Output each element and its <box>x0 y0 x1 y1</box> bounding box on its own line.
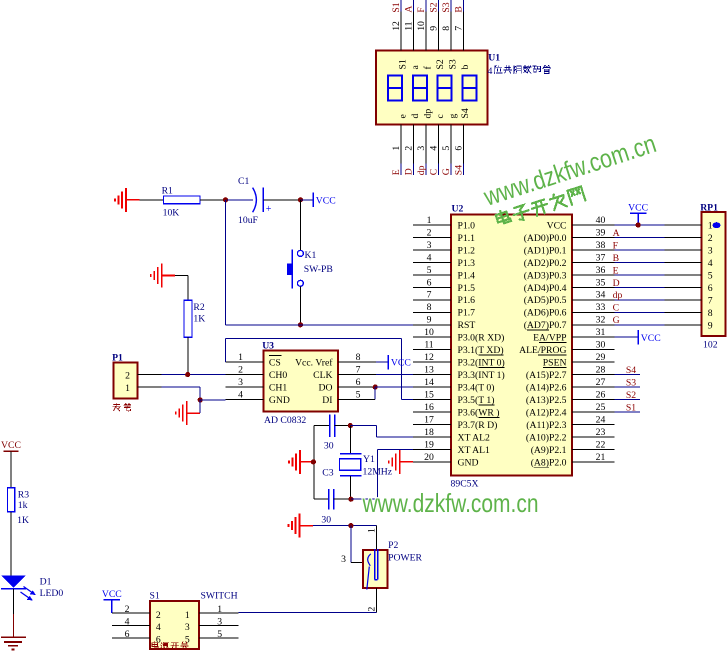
U2 pin number 30 <box>596 340 606 351</box>
net label B <box>454 6 465 12</box>
U2 pin number 27 <box>596 377 606 388</box>
U2 pin 26 wire <box>572 399 615 401</box>
svg-text:26: 26 <box>596 390 606 401</box>
U2 pin 12 wire <box>413 361 451 363</box>
net label dp <box>613 290 623 301</box>
U1 pin 8 wire <box>450 0 452 50</box>
svg-text:6: 6 <box>708 283 713 294</box>
U2 pin 17 wire <box>413 424 451 426</box>
svg-text:P3.4(T 0): P3.4(T 0) <box>458 383 495 394</box>
RP1 pin 7 wire <box>665 299 702 301</box>
svg-text:4: 4 <box>427 252 432 263</box>
U3 pin 2 wire <box>225 374 263 376</box>
svg-text:2: 2 <box>125 370 130 381</box>
svg-text:38: 38 <box>596 240 606 251</box>
earth ground <box>1 637 26 649</box>
net label D <box>404 168 415 175</box>
label probe (CJK) <box>113 403 131 411</box>
wire <box>10 451 12 487</box>
MCU U2 body <box>451 215 572 476</box>
U1 pin 9 wire <box>437 0 439 50</box>
S1 pin 1 wire <box>199 612 238 614</box>
U3 pin 6 wire DO <box>338 386 375 388</box>
svg-text:30: 30 <box>324 440 334 451</box>
svg-text:22: 22 <box>596 439 606 450</box>
power VCC <box>313 193 336 207</box>
junction <box>298 197 303 202</box>
U2 pin 36 wire <box>572 274 615 276</box>
svg-text:2: 2 <box>156 610 161 621</box>
svg-text:VCC: VCC <box>641 333 661 344</box>
net label S1 <box>626 403 636 414</box>
net label dp <box>416 165 427 175</box>
RP1 pin 1 marker <box>713 222 721 228</box>
U2 pin 32 wire <box>572 324 615 326</box>
wire <box>615 274 665 276</box>
wire <box>239 611 377 613</box>
RP1 pin 2 wire <box>665 237 702 239</box>
U2 pin 4 wire <box>413 261 451 263</box>
svg-text:3: 3 <box>416 146 427 151</box>
svg-text:AD C0832: AD C0832 <box>264 415 306 426</box>
U2 pin number 5 <box>427 265 432 276</box>
U1 pin number 10 <box>416 21 427 31</box>
RP1 pin 9 wire <box>665 324 702 326</box>
net label F <box>613 240 619 251</box>
svg-text:CS: CS <box>269 358 281 369</box>
svg-text:17: 17 <box>424 414 434 425</box>
label 12MHz <box>363 466 393 477</box>
junction <box>373 385 378 390</box>
label R2 <box>193 302 204 313</box>
U2 pin number 40 <box>596 215 606 226</box>
power VCC <box>102 589 122 613</box>
svg-text:11: 11 <box>404 21 415 30</box>
net label B <box>613 253 619 264</box>
capacitor C1 <box>227 188 300 215</box>
designator U3 <box>262 341 274 352</box>
power VCC <box>638 330 661 344</box>
junction <box>198 397 203 402</box>
svg-text:P1.4: P1.4 <box>458 270 476 281</box>
crystal Y1 <box>340 426 362 500</box>
svg-text:30: 30 <box>596 340 606 351</box>
U2 pin 38 wire <box>572 249 615 251</box>
capacitor C3 <box>314 489 351 510</box>
svg-text:RST: RST <box>458 320 476 331</box>
S1 pin 4 wire <box>112 625 150 627</box>
U2 pin number 15 <box>424 390 434 401</box>
svg-text:G: G <box>613 315 620 326</box>
connector P1 body <box>114 363 138 399</box>
S1 inner pin numbers <box>156 610 190 646</box>
svg-text:S2: S2 <box>626 390 636 401</box>
svg-text:34: 34 <box>596 290 606 301</box>
svg-text:4: 4 <box>429 146 440 151</box>
svg-text:VCC: VCC <box>628 203 648 214</box>
svg-text:a: a <box>410 65 421 70</box>
designator P1 <box>112 352 123 363</box>
svg-text:6: 6 <box>125 629 130 640</box>
RP1 pin 1 wire <box>665 224 702 226</box>
svg-text:g: g <box>448 114 459 119</box>
wire <box>199 400 201 413</box>
svg-text:9: 9 <box>429 26 440 31</box>
svg-text:R1: R1 <box>162 185 173 196</box>
U2 pin number 23 <box>596 427 606 438</box>
net label S3 <box>441 2 452 12</box>
net label C <box>429 169 440 175</box>
watermark www.dzkfw.com.cn (bottom) <box>362 488 539 518</box>
U2 pin number 13 <box>424 365 434 376</box>
svg-text:16: 16 <box>424 402 434 413</box>
svg-text:R2: R2 <box>193 302 204 313</box>
label AD C0832 <box>264 415 306 426</box>
svg-text:P3.3(INT 1): P3.3(INT 1) <box>458 370 505 381</box>
svg-text:10: 10 <box>424 327 434 338</box>
wire <box>615 299 665 301</box>
display digit segments <box>388 76 476 101</box>
svg-text:P2: P2 <box>388 540 398 551</box>
ground <box>151 264 176 288</box>
U3 pin 3 wire <box>225 386 263 388</box>
U1 pin number 11 <box>404 21 415 30</box>
label POWER <box>388 553 422 564</box>
wire <box>12 589 14 638</box>
U2 pin number 31 <box>596 327 606 338</box>
display pin names <box>398 59 471 118</box>
svg-text:(A13)P2.5: (A13)P2.5 <box>526 395 567 406</box>
svg-text:A: A <box>404 6 415 13</box>
designator U1 <box>488 52 500 63</box>
svg-text:1K: 1K <box>17 515 29 526</box>
wire <box>615 399 641 401</box>
svg-text:U2: U2 <box>452 204 464 215</box>
svg-text:Vcc. Vref: Vcc. Vref <box>295 358 333 369</box>
svg-text:5: 5 <box>708 270 713 281</box>
svg-text:1k: 1k <box>18 500 28 511</box>
P2 pin 1 wire <box>375 526 377 551</box>
svg-text:1: 1 <box>366 528 377 533</box>
U3 pin names <box>269 355 333 406</box>
svg-text:P1.3: P1.3 <box>458 258 476 269</box>
U2 pin number 29 <box>596 352 606 363</box>
svg-text:3: 3 <box>708 245 713 256</box>
U2 pin number 34 <box>596 290 606 301</box>
svg-text:3: 3 <box>341 554 346 565</box>
U2 pin 11 wire <box>413 349 451 351</box>
net label A <box>613 228 620 239</box>
U1 pin 3 wire <box>425 125 427 175</box>
svg-text:P3.2(INT 0): P3.2(INT 0) <box>458 358 505 369</box>
svg-text:P1.1: P1.1 <box>458 233 476 244</box>
svg-text:(A11)P2.3: (A11)P2.3 <box>526 420 566 431</box>
svg-text:37: 37 <box>596 252 606 263</box>
U1 pin 2 wire <box>413 125 415 175</box>
svg-text:C: C <box>429 169 440 175</box>
P2 jack symbol <box>367 549 378 590</box>
svg-text:R3: R3 <box>18 490 29 501</box>
U3 pin 8 wire <box>338 361 388 363</box>
svg-text:C: C <box>613 303 619 314</box>
U2 pin number 9 <box>427 315 432 326</box>
U2 pin number 2 <box>427 227 432 238</box>
U1 pin 10 wire <box>425 0 427 50</box>
net label E <box>613 265 619 276</box>
svg-text:C1: C1 <box>238 176 249 187</box>
wire <box>299 200 301 251</box>
svg-text:SW-PB: SW-PB <box>304 264 333 275</box>
U2 pin 19 wire <box>413 449 451 451</box>
U2 pin number 14 <box>424 377 434 388</box>
svg-text:8: 8 <box>441 26 452 31</box>
U2 pin number 33 <box>596 302 606 313</box>
S1 pin number 4 <box>125 616 130 627</box>
U2 pin 39 wire <box>572 237 615 239</box>
designator P2 <box>388 540 398 551</box>
node CS route <box>225 338 413 399</box>
svg-text:4: 4 <box>156 622 161 633</box>
S1 pin number 2 <box>125 604 130 615</box>
designator S1 <box>150 590 160 601</box>
svg-text:6: 6 <box>427 277 432 288</box>
switch K1 <box>287 250 304 289</box>
svg-text:dp: dp <box>416 165 427 175</box>
wire <box>300 199 313 201</box>
svg-text:dp: dp <box>613 290 623 301</box>
U2 pin 5 wire <box>413 274 451 276</box>
svg-text:POWER: POWER <box>388 553 422 564</box>
U2 pin 3 wire <box>413 249 451 251</box>
svg-text:XT AL1: XT AL1 <box>458 445 491 456</box>
svg-text:PSEN: PSEN <box>543 358 567 369</box>
svg-text:4: 4 <box>238 390 243 401</box>
svg-text:P1.2: P1.2 <box>458 245 476 256</box>
label 10uF <box>238 215 259 226</box>
U2 pin number 3 <box>427 240 432 251</box>
label R1 <box>162 185 173 196</box>
svg-text:S2: S2 <box>429 2 440 12</box>
label C1 <box>238 176 249 187</box>
U2 pin 13 wire <box>413 374 451 376</box>
power VCC <box>388 355 411 369</box>
U2 pin 29 wire <box>572 361 615 363</box>
watermark dzkfw CJK (diagonal) <box>495 185 585 228</box>
svg-text:(AD6)P0.6: (AD6)P0.6 <box>524 308 567 319</box>
net label S3 <box>626 378 636 389</box>
U1 pin 6 wire <box>462 125 464 175</box>
svg-text:4: 4 <box>708 258 713 269</box>
svg-text:G: G <box>441 168 452 175</box>
U2 pin 7 wire <box>413 299 451 301</box>
U2 pin 30 wire <box>572 349 615 351</box>
svg-text:F: F <box>613 240 619 251</box>
svg-text:21: 21 <box>596 452 606 463</box>
U2 pin number 6 <box>427 277 432 288</box>
U2 pin 23 wire <box>572 436 615 438</box>
svg-text:8: 8 <box>708 308 713 319</box>
connector P2 body <box>363 550 387 588</box>
S1 pin 2 wire <box>112 612 150 614</box>
svg-text:CLK: CLK <box>313 370 332 381</box>
wire <box>351 449 413 499</box>
svg-text:2: 2 <box>125 604 130 615</box>
svg-text:P3.5(T 1): P3.5(T 1) <box>458 395 495 406</box>
net label S1 <box>391 2 402 12</box>
svg-text:(A14)P2.6: (A14)P2.6 <box>526 383 567 394</box>
junction <box>185 372 190 377</box>
svg-text:3: 3 <box>185 622 190 633</box>
svg-text:28: 28 <box>596 365 606 376</box>
U3 pin numbers <box>238 352 361 401</box>
U2 pin 6 wire <box>413 286 451 288</box>
svg-text:2: 2 <box>404 146 415 151</box>
P1 pin 1 wire <box>137 387 200 400</box>
label K1 <box>305 250 317 261</box>
wire <box>313 525 376 527</box>
svg-text:1: 1 <box>217 604 222 615</box>
svg-text:DO: DO <box>319 383 333 394</box>
junction <box>311 459 316 464</box>
U2 pin number 11 <box>424 340 433 351</box>
U2 pin 9 wire <box>413 324 451 326</box>
S1 pin 5 wire <box>199 637 238 639</box>
svg-text:VCC: VCC <box>547 220 567 231</box>
P2 pin 2 wire <box>375 588 377 612</box>
svg-text:(AD0)P0.0: (AD0)P0.0 <box>524 233 567 244</box>
U2 pin number 10 <box>424 327 434 338</box>
svg-text:S3: S3 <box>441 2 452 12</box>
junction <box>298 322 303 327</box>
wire <box>200 399 225 401</box>
svg-text:VCC: VCC <box>316 195 336 206</box>
svg-text:CH1: CH1 <box>269 383 287 394</box>
net label S2 <box>429 2 440 12</box>
svg-text:3: 3 <box>217 616 222 627</box>
S1 pin number 5 <box>217 629 222 640</box>
U2 pin 31 wire <box>572 336 615 338</box>
resistor R2 <box>184 300 192 337</box>
svg-text:B: B <box>454 6 465 12</box>
net label D <box>613 278 620 289</box>
U2 pin 2 wire <box>413 237 451 239</box>
svg-text:5: 5 <box>441 146 452 151</box>
svg-text:(A8)P2.0: (A8)P2.0 <box>531 457 567 468</box>
svg-text:K1: K1 <box>305 250 317 261</box>
U2 pin number 18 <box>424 427 434 438</box>
U2 pin number 1 <box>427 215 432 226</box>
RP1 pin 6 wire <box>665 286 702 288</box>
svg-text:31: 31 <box>596 327 606 338</box>
S1 pin number 6 <box>125 629 130 640</box>
svg-text:10K: 10K <box>163 208 180 219</box>
wire <box>615 237 665 239</box>
U2 pin 24 wire <box>572 424 615 426</box>
U2 pin number 38 <box>596 240 606 251</box>
junction <box>348 523 353 528</box>
junction <box>223 197 228 202</box>
svg-text:+: + <box>266 204 272 215</box>
label power switch (CJK) <box>152 641 188 649</box>
svg-text:GND: GND <box>269 395 290 406</box>
net label S2 <box>626 390 636 401</box>
U2 pin number 16 <box>424 402 434 413</box>
label 1K <box>193 314 205 325</box>
U1 pin number 3 <box>416 146 427 151</box>
svg-text:1K: 1K <box>193 314 205 325</box>
U1 pin 7 wire <box>462 0 464 50</box>
7-segment display U1 body <box>376 50 487 124</box>
RP1 pin 3 wire <box>665 249 702 251</box>
svg-text:VCC: VCC <box>102 589 122 600</box>
svg-text:F: F <box>416 7 427 13</box>
label Y1 <box>363 454 375 465</box>
node CLK route <box>338 374 413 376</box>
svg-text:E: E <box>391 169 402 175</box>
svg-text:(AD2)P0.2: (AD2)P0.2 <box>524 258 567 269</box>
U2 pin number 25 <box>596 402 606 413</box>
label 30 <box>324 440 334 451</box>
wire <box>187 337 189 374</box>
U2 left pin names <box>458 220 505 468</box>
ground <box>289 450 314 474</box>
S1 pin number 1 <box>217 604 222 615</box>
U1 pin number 12 <box>391 21 402 31</box>
svg-text:(AD7)P0.7: (AD7)P0.7 <box>524 320 567 331</box>
svg-text:C3: C3 <box>322 468 333 479</box>
svg-text:S1: S1 <box>391 2 402 12</box>
label SW-PB <box>304 264 333 275</box>
U2 pin number 8 <box>427 302 432 313</box>
U2 pin 28 wire <box>572 374 615 376</box>
svg-text:4: 4 <box>125 616 130 627</box>
svg-text:b: b <box>460 65 471 70</box>
U2 pin number 22 <box>596 439 606 450</box>
U2 pin number 12 <box>424 352 434 363</box>
svg-text:D: D <box>404 168 415 175</box>
label 1K <box>17 515 29 526</box>
label 10K <box>163 208 180 219</box>
power VCC <box>628 203 648 225</box>
U1 pin 1 wire <box>400 125 402 175</box>
wire <box>615 374 641 376</box>
RP1 pin 4 wire <box>665 261 702 263</box>
svg-text:32: 32 <box>596 315 606 326</box>
RP1 pin numbers <box>708 221 713 332</box>
ground <box>176 401 201 425</box>
svg-text:7: 7 <box>708 295 713 306</box>
svg-text:ALE/PROG: ALE/PROG <box>519 345 566 356</box>
svg-text:30: 30 <box>321 515 331 526</box>
wire <box>615 286 665 288</box>
svg-text:10uF: 10uF <box>238 215 259 226</box>
resistor network RP1 body <box>701 212 725 336</box>
switch S1 body <box>150 601 199 649</box>
ground <box>389 450 414 474</box>
U2 pin 8 wire <box>413 311 451 313</box>
U2 pin 16 wire <box>413 411 451 413</box>
label 1k <box>18 500 28 511</box>
svg-text:RP1: RP1 <box>700 203 718 214</box>
U1 pin number 2 <box>404 146 415 151</box>
svg-text:(A12)P2.4: (A12)P2.4 <box>526 408 567 419</box>
svg-text:29: 29 <box>596 352 606 363</box>
svg-text:7: 7 <box>427 290 432 301</box>
label C3 <box>322 468 333 479</box>
svg-text:18: 18 <box>424 427 434 438</box>
wire <box>615 311 665 313</box>
U2 pin number 37 <box>596 252 606 263</box>
